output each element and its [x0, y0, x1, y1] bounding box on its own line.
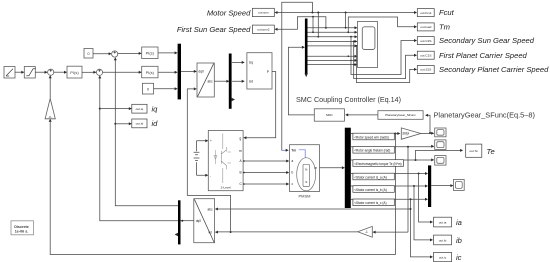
- outport out.ia: [434, 217, 452, 227]
- svg-text:P: P: [267, 70, 269, 74]
- saturation block: [24, 67, 35, 79]
- svg-text:PI(s): PI(s): [70, 70, 79, 75]
- svg-text:out.ic: out.ic: [439, 255, 447, 259]
- bar3 output wires to scope: [308, 26, 358, 66]
- wire zero to sum c0: [93, 52, 112, 55]
- svg-text:abc: abc: [208, 207, 213, 211]
- scope C: [435, 156, 446, 166]
- svg-text:<Stator current is_c (A): <Stator current is_c (A): [354, 201, 386, 205]
- DC source battery: [194, 139, 209, 177]
- bus label Stator current is_a: [351, 173, 395, 180]
- wire iq PI to mux1: [158, 71, 178, 74]
- svg-text:Tm: Tm: [291, 149, 296, 153]
- svg-text:m: m: [315, 166, 318, 170]
- scope B: [435, 140, 446, 150]
- wire id PI to mux1: [158, 51, 178, 54]
- outport out.iq: [132, 104, 147, 113]
- wire branch to out.load: [348, 17, 417, 32]
- outport out.C2S: [417, 37, 434, 45]
- svg-text:a: a: [292, 159, 294, 163]
- wire branch to out.C1S: [354, 41, 417, 78]
- svg-text:+: +: [210, 139, 212, 143]
- svg-text:<Stator current is_b (A): <Stator current is_b (A): [354, 188, 387, 192]
- speed feedback wire wm: [49, 119, 397, 255]
- wire is_c to bar5, abc line and out.ic: [215, 198, 433, 259]
- powergui block: [11, 221, 34, 235]
- abc to dq0 transform: [194, 199, 215, 243]
- svg-text:PlanetaryGear_SFunc: PlanetaryGear_SFunc: [385, 113, 416, 117]
- wire motor m to bar4: [320, 166, 345, 169]
- outport out.rpm: [252, 8, 274, 16]
- ramp source block: [4, 67, 15, 79]
- wire gain to c1: [49, 75, 52, 98]
- svg-text:Motor Speed: Motor Speed: [207, 8, 251, 17]
- svg-text:dq0: dq0: [199, 70, 204, 74]
- wire ramp to saturation: [15, 71, 24, 74]
- svg-text:<Rotor speed wm (rad/s): <Rotor speed wm (rad/s): [354, 135, 389, 139]
- wire mux1 to dq0-abc transform: [181, 70, 197, 73]
- wire thetam to scope B and theta riser: [394, 145, 434, 232]
- svg-text:out.C1S: out.C1S: [420, 53, 431, 57]
- svg-text:PI(s): PI(s): [146, 51, 155, 56]
- svg-text:m: m: [239, 149, 242, 153]
- svg-text:id: id: [152, 119, 159, 128]
- outport out.ib: [434, 235, 452, 245]
- svg-text:out.rpm2: out.rpm2: [257, 28, 269, 32]
- svg-text:<Stator current is_a (A): <Stator current is_a (A): [354, 175, 387, 179]
- outport out.id: [132, 119, 147, 128]
- svg-text:iq: iq: [152, 104, 159, 113]
- svg-text:Discrete: Discrete: [14, 225, 29, 229]
- svg-text:S: S: [305, 180, 307, 184]
- wire zero2 to mux1: [154, 87, 178, 90]
- svg-text:B: B: [240, 171, 242, 175]
- svg-text:out.Fcut: out.Fcut: [420, 11, 431, 15]
- svg-text:-K-: -K-: [48, 115, 52, 119]
- svg-text:SMC: SMC: [326, 113, 334, 117]
- svg-text:wt: wt: [209, 230, 212, 234]
- wire c2 to iq PI: [103, 71, 142, 74]
- svg-text:Tm: Tm: [439, 23, 450, 32]
- wire branch to out.S1S: [356, 46, 417, 83]
- svg-text:out.Te: out.Te: [469, 149, 478, 153]
- bus label Rotor speed wm: [351, 133, 395, 140]
- dq0 to abc transform: [197, 63, 214, 97]
- riser wires linking rpm lines: [313, 13, 318, 37]
- wire is_b to bar5 and out.ib: [394, 185, 433, 242]
- speed PI(s) controller: [67, 66, 82, 78]
- outport out.rpm2: [252, 25, 274, 33]
- wire branch to out.C2S: [351, 37, 417, 75]
- scope S1: [358, 22, 378, 68]
- wire transform1 to bar2: [214, 80, 229, 83]
- wire wm to rpm gain: [394, 132, 400, 135]
- wire out.rpm2 branch: [275, 12, 327, 31]
- demux bar2 bottom: [175, 200, 181, 244]
- PMSM motor block: [290, 145, 320, 192]
- wire SMC output to bar3: [288, 46, 314, 115]
- wire bar5 to scope D: [431, 184, 453, 187]
- outport out.Te: [466, 144, 482, 157]
- svg-text:dq0: dq0: [196, 219, 201, 223]
- two-level converter block: [208, 131, 243, 191]
- scope A: [435, 128, 446, 137]
- wire is_a to bar5 and out.ia: [394, 172, 433, 224]
- svg-text:<Electromagnetic torque Te (N*: <Electromagnetic torque Te (N*m): [354, 162, 401, 166]
- demux bar2: [229, 54, 235, 109]
- svg-text:2-Level: 2-Level: [221, 186, 231, 190]
- svg-text:out.ib: out.ib: [439, 238, 447, 242]
- demux bar3: [305, 19, 308, 74]
- wire PG to SMC: [345, 113, 378, 116]
- constant 0 (third mux input): [142, 83, 153, 94]
- wire transform2 to demux2: [181, 220, 194, 222]
- bus label Rotor angle thetam: [351, 147, 395, 154]
- svg-text:out.ia: out.ia: [439, 220, 447, 224]
- mux bar5: [428, 165, 431, 207]
- bar2 outputs to PWM gen: [232, 61, 245, 83]
- SMC block: [314, 109, 344, 121]
- outport out.C1S: [417, 51, 434, 59]
- wire speed PI to sum c2: [82, 71, 96, 74]
- svg-text:b: b: [292, 171, 294, 175]
- wire saturation to sum c1: [35, 71, 47, 74]
- constant 0 (id ref): [84, 49, 93, 59]
- svg-text:<Rotor angle thetam (rad): <Rotor angle thetam (rad): [354, 149, 390, 153]
- wire PG input riser: [425, 114, 431, 134]
- svg-text:out.S1S: out.S1S: [420, 68, 431, 72]
- mux1: [178, 44, 181, 100]
- scope D: [453, 180, 464, 191]
- bus label Electromagnetic torque Te: [351, 160, 404, 167]
- wire rpm line to out.rpm and out.Fcut: [275, 11, 418, 28]
- svg-text:g: g: [240, 137, 242, 141]
- outport out.load: [417, 23, 434, 31]
- id current PI(s): [142, 47, 158, 59]
- iq current PI(s): [142, 66, 158, 78]
- svg-text:out.load: out.load: [420, 25, 431, 29]
- wire torque to scope C and out.Te: [404, 149, 464, 162]
- svg-text:-: -: [210, 174, 211, 178]
- svg-text:Ud: Ud: [249, 79, 253, 83]
- svg-text:First Sun Gear Speed: First Sun Gear Speed: [177, 25, 251, 34]
- svg-text:out.id: out.id: [136, 122, 144, 126]
- svg-text:N: N: [305, 167, 307, 171]
- svg-text:Uq: Uq: [249, 61, 253, 65]
- theta gain (left triangle): [358, 226, 408, 237]
- PlanetaryGear_SFunc block: [378, 111, 423, 120]
- svg-text:ic: ic: [456, 253, 462, 262]
- outport out.ic: [434, 252, 452, 261]
- outport out.Fcut: [417, 9, 434, 17]
- wire c0 to id PI: [118, 52, 142, 55]
- PWM generator block (Uq Ud -> P): [247, 53, 272, 89]
- gain 30/pi: [401, 128, 420, 139]
- svg-text:PlanetaryGear_SFunc(Eq.5–8): PlanetaryGear_SFunc(Eq.5–8): [434, 110, 535, 119]
- svg-text:abc: abc: [208, 79, 213, 83]
- svg-text:PI(s): PI(s): [146, 70, 155, 75]
- sum junction c1: [48, 69, 54, 75]
- wire c1 to speed PI: [54, 71, 67, 74]
- sum junction c0: [112, 51, 118, 57]
- svg-text:1e-06 s.: 1e-06 s.: [15, 230, 29, 234]
- wire gain to scope A: [421, 132, 435, 135]
- svg-text:ib: ib: [456, 236, 462, 245]
- wire theta into transform1: [194, 87, 197, 90]
- iq feedback wire: [98, 75, 178, 220]
- svg-text:PMSM: PMSM: [299, 194, 311, 199]
- outport out.S1S: [417, 66, 434, 74]
- svg-text:out.rpm: out.rpm: [258, 11, 269, 15]
- svg-text:Te: Te: [487, 147, 495, 156]
- svg-text:SMC Coupling Controller (Eq.14: SMC Coupling Controller (Eq.14): [296, 95, 401, 104]
- sum junction c2: [96, 69, 102, 75]
- svg-text:ia: ia: [456, 218, 462, 227]
- bus label Stator current is_b: [351, 186, 395, 193]
- svg-text:out.C2S: out.C2S: [420, 39, 431, 43]
- svg-text:First Planet Carrier Speed: First Planet Carrier Speed: [439, 51, 528, 60]
- svg-text:out.iq: out.iq: [136, 107, 144, 111]
- svg-text:Secondary Planet Carrier Speed: Secondary Planet Carrier Speed: [439, 65, 549, 74]
- demux bar4: [345, 128, 351, 208]
- svg-text:-1: -1: [365, 230, 368, 234]
- speed feedback gain (up triangle): [45, 99, 55, 119]
- bus label Stator current is_c: [351, 199, 395, 206]
- wires converter ABC to motor: [243, 160, 289, 186]
- wire P to inverter g: [243, 72, 275, 140]
- svg-text:Fcut: Fcut: [439, 8, 455, 17]
- wire Tm branch to motor: [282, 2, 313, 152]
- svg-text:30/pi: 30/pi: [402, 132, 409, 136]
- svg-text:Secondary Sun Gear Speed: Secondary Sun Gear Speed: [439, 36, 535, 45]
- wire theta to transforms: [187, 89, 357, 234]
- id feedback wire: [114, 57, 178, 206]
